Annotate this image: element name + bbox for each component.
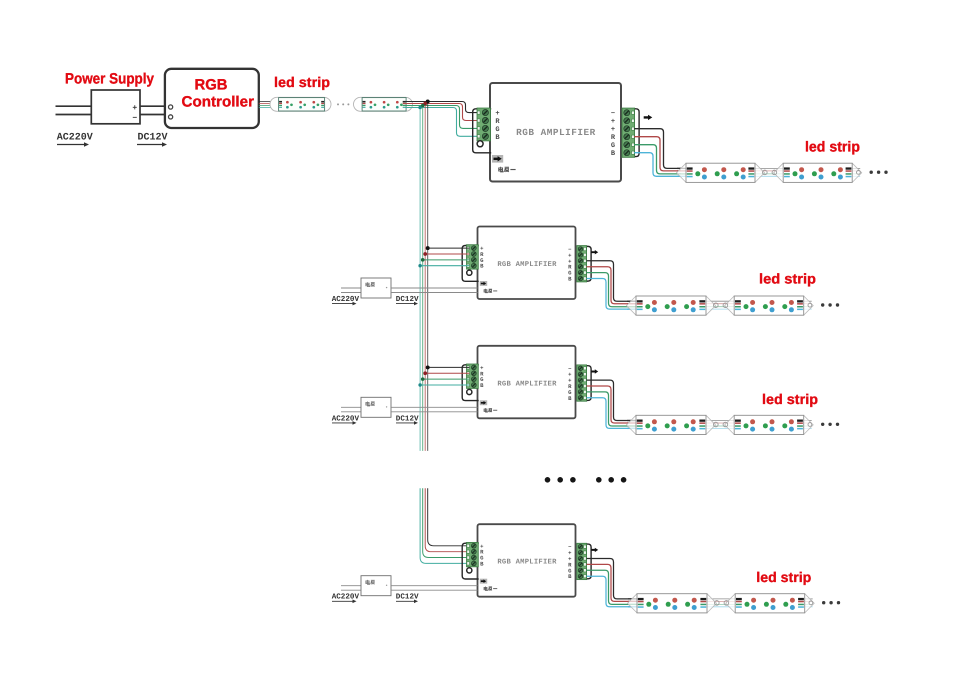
svg-text:AC220V: AC220V [332,295,360,304]
label DC12V row3 [396,414,419,424]
svg-text:led strip: led strip [274,74,330,90]
svg-text:+: + [611,118,615,126]
wire red U4 to strip [587,386,638,423]
bus wire teal lower [420,488,469,563]
bus wire green vertical [422,106,424,451]
power input arrow icon U5 [480,579,487,584]
wire black strip to bus/amp1 [405,102,480,113]
node bus tap green row1 [421,104,425,108]
RGB amplifier U2 [490,83,621,182]
led strip S3 [627,296,814,315]
wire black bus tap row3 [428,366,470,368]
wire green U3 to strip [587,273,638,307]
continuation dots [821,303,839,306]
svg-text:+: + [611,126,615,134]
wire DC12V row2 [391,288,478,293]
wire red U2 to strip [634,137,681,171]
wire blue U3 to strip [587,279,638,310]
svg-text:RGB AMPLIFIER: RGB AMPLIFIER [497,559,557,567]
RGB amplifier U5 [478,524,576,597]
node bus tap teal row1 [418,106,422,110]
label power(电源) U2 [499,167,516,172]
wire blue U4 to strip [587,398,638,429]
label DC12V row1 [137,133,168,147]
continuation dots [822,601,840,604]
node bus tap black row1 [426,100,430,104]
terminal block U5 output [568,543,591,580]
power input arrow icon U2 [492,155,503,163]
wire red U5 to strip [587,564,638,601]
wire red bus tap row2 [425,253,469,255]
label AC220V row4 [332,593,360,603]
bus wire teal vertical [419,108,421,451]
svg-text:RGB AMPLIFIER: RGB AMPLIFIER [516,127,596,138]
svg-text:led strip: led strip [756,569,811,585]
led strip S5 [628,594,815,613]
wire controller to led strip [259,102,280,108]
wire DC12V row3 [391,407,478,412]
svg-text:led strip: led strip [759,271,816,287]
svg-text:−: − [132,114,137,123]
power supply PS1 [91,90,140,124]
led strip S1 segment 2 [354,97,413,111]
wire blue U5 to strip [587,576,638,607]
output direction arrow U2 [644,115,653,120]
terminal block U4 output [568,365,591,402]
label DC12V row2 [396,295,419,305]
bus wire black vertical [427,102,429,451]
wire teal bus tap row2 [420,265,469,267]
power supply PS2 (电源) [361,278,391,298]
wire green bus tap row2 [423,259,470,261]
wire green U4 to strip [587,392,638,426]
svg-text:+: + [132,104,137,113]
svg-text:G: G [495,126,499,134]
wire DC12V to controller [140,106,165,114]
power input arrow icon U4 [480,400,487,405]
node bus tap red row1 [423,102,427,106]
power input arrow icon U3 [480,281,487,286]
label DC12V row4 [396,593,419,603]
terminal block U3 output [568,246,591,283]
continuation dots (more amplifiers) [545,477,627,483]
bus wire green lower [423,488,470,557]
terminal block U2 input [473,108,501,153]
wire green U2 to strip [634,145,681,174]
label RGB Controller [182,76,255,110]
node bus tap green row2 [421,258,425,262]
led strip S1 segment 1 [270,97,331,111]
output direction arrow U3 [591,250,598,254]
svg-text:G: G [611,142,615,150]
node bus tap red row2 [423,252,427,256]
wire black U4 to strip [587,380,638,420]
svg-text:RGB: RGB [195,76,228,93]
wire AC mains row4 [341,586,361,591]
wire teal bus tap row3 [420,384,469,386]
terminal block U4 input [462,364,484,401]
terminal block U5 input [462,542,484,579]
svg-text:AC220V: AC220V [332,414,360,423]
bus wire black lower [428,488,470,546]
node bus tap black row2 [426,246,430,250]
wire black U5 to strip [587,559,638,599]
node bus tap teal row2 [418,264,421,267]
wire green strip to bus/amp1 [405,106,480,129]
node bus tap red row3 [423,371,427,375]
RGB controller U1 [165,69,259,128]
label power(电源) U4 [484,408,497,412]
wire green U5 to strip [587,570,638,604]
svg-text:Controller: Controller [182,93,255,110]
svg-text:AC220V: AC220V [57,133,93,144]
svg-text:DC12V: DC12V [138,133,168,144]
wire black bus tap row2 [428,247,470,249]
wire AC mains input [56,106,92,114]
continuation dots [821,423,839,426]
RGB amplifier U4 [478,346,576,419]
bus wire red vertical [424,104,426,451]
label AC220V row2 [332,295,360,305]
wire teal strip to bus/amp1 [405,108,480,137]
wire red U3 to strip [587,267,638,304]
svg-text:Power Supply: Power Supply [65,71,155,88]
wire blue U2 to strip [634,153,681,177]
svg-text:+: + [495,110,499,118]
continuation dots S1 [337,103,349,105]
wire AC mains row2 [341,288,361,293]
node bus tap teal row3 [418,383,421,386]
svg-text:led strip: led strip [805,140,860,156]
label AC220V row1 [57,133,93,147]
wire black U2 to strip [634,129,681,169]
output direction arrow U4 [591,369,598,373]
wire red bus tap row3 [425,372,469,374]
node bus tap black row3 [426,365,430,369]
label power(电源) U3 [484,289,497,293]
terminal block U2 output [611,108,639,158]
wire DC12V row4 [391,586,478,591]
wire black U3 to strip [587,261,638,301]
wire green bus tap row3 [423,378,470,380]
svg-text:RGB AMPLIFIER: RGB AMPLIFIER [497,380,557,388]
svg-text:AC220V: AC220V [332,593,360,602]
label AC220V row3 [332,414,360,424]
power supply PS4 (电源) [361,576,391,596]
node bus tap green row3 [421,377,425,381]
wire red strip to bus/amp1 [405,104,480,121]
bus wire red lower [425,488,469,552]
terminal block U3 input [462,245,484,282]
RGB amplifier U3 [478,227,576,300]
led strip S4 [627,415,814,434]
output direction arrow U5 [591,548,598,552]
led strip S2 [677,163,862,182]
power supply PS3 (电源) [361,397,391,417]
svg-text:−: − [611,110,615,118]
wire AC mains row3 [341,407,361,412]
label power(电源) U5 [484,587,497,591]
continuation dots [870,171,888,174]
svg-text:led strip: led strip [762,391,818,407]
svg-text:RGB AMPLIFIER: RGB AMPLIFIER [497,261,557,269]
